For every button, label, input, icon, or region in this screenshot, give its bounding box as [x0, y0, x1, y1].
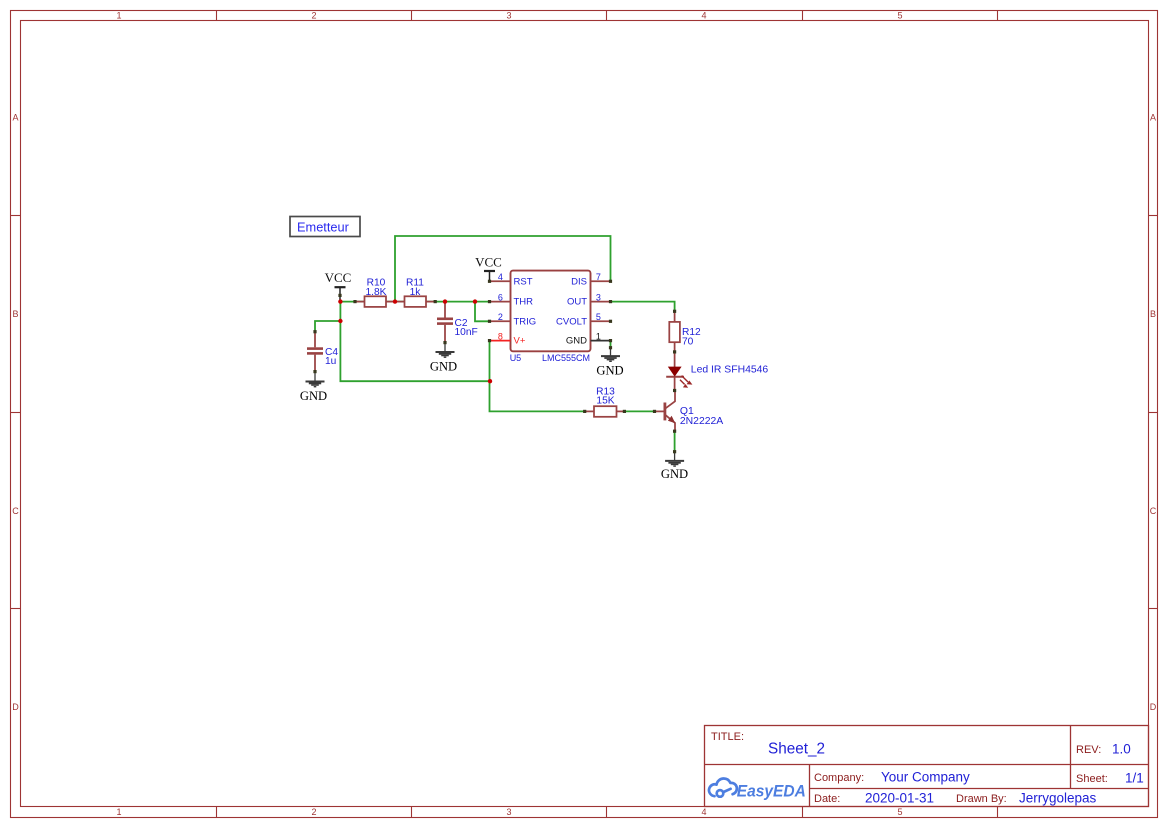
svg-text:THR: THR — [514, 297, 534, 308]
svg-text:B: B — [12, 309, 18, 319]
svg-text:D: D — [1150, 702, 1157, 712]
svg-text:TITLE:: TITLE: — [711, 731, 744, 743]
svg-text:VCC: VCC — [475, 255, 502, 270]
svg-text:Your Company: Your Company — [881, 770, 970, 785]
svg-text:GND: GND — [566, 336, 587, 347]
svg-text:2: 2 — [311, 11, 316, 21]
svg-text:10nF: 10nF — [455, 327, 478, 338]
svg-text:5: 5 — [897, 807, 902, 817]
svg-text:7: 7 — [596, 272, 601, 282]
svg-text:1: 1 — [116, 807, 121, 817]
svg-text:2: 2 — [311, 807, 316, 817]
svg-text:LMC555CM: LMC555CM — [542, 353, 590, 363]
svg-text:Emetteur: Emetteur — [297, 220, 350, 235]
svg-text:1.8K: 1.8K — [366, 287, 387, 298]
svg-text:4: 4 — [498, 272, 503, 282]
svg-text:Jerrygolepas: Jerrygolepas — [1019, 791, 1097, 806]
svg-text:C: C — [1150, 506, 1157, 516]
svg-text:Company:: Company: — [814, 772, 864, 784]
svg-text:Sheet_2: Sheet_2 — [768, 741, 825, 758]
svg-text:CVOLT: CVOLT — [556, 316, 587, 327]
svg-text:OUT: OUT — [567, 297, 587, 308]
svg-text:5: 5 — [897, 11, 902, 21]
svg-text:GND: GND — [430, 359, 457, 373]
svg-text:U5: U5 — [510, 353, 522, 363]
svg-text:D: D — [12, 702, 19, 712]
svg-text:REV:: REV: — [1076, 744, 1101, 756]
svg-text:1.0: 1.0 — [1112, 742, 1131, 757]
svg-text:15K: 15K — [596, 396, 614, 407]
svg-text:Date:: Date: — [814, 793, 840, 805]
svg-text:3: 3 — [506, 11, 511, 21]
svg-text:3: 3 — [596, 292, 601, 302]
svg-text:2020-01-31: 2020-01-31 — [865, 791, 934, 806]
svg-text:C: C — [12, 506, 19, 516]
svg-text:5: 5 — [596, 312, 601, 322]
svg-text:V+: V+ — [514, 336, 526, 347]
svg-text:DIS: DIS — [571, 276, 587, 287]
svg-text:A: A — [12, 113, 18, 123]
svg-text:1k: 1k — [410, 287, 422, 298]
svg-text:70: 70 — [682, 336, 694, 347]
svg-text:Sheet:: Sheet: — [1076, 773, 1108, 785]
svg-text:4: 4 — [701, 807, 706, 817]
svg-text:Drawn By:: Drawn By: — [956, 793, 1007, 805]
svg-text:EasyEDA: EasyEDA — [737, 782, 806, 801]
svg-text:1u: 1u — [325, 356, 336, 367]
svg-text:Led IR SFH4546: Led IR SFH4546 — [691, 365, 769, 376]
svg-text:2: 2 — [498, 312, 503, 322]
svg-text:VCC: VCC — [325, 270, 352, 285]
svg-text:RST: RST — [514, 276, 533, 287]
svg-text:B: B — [1150, 309, 1156, 319]
svg-text:GND: GND — [596, 363, 623, 377]
svg-text:A: A — [1150, 113, 1156, 123]
svg-text:1: 1 — [596, 331, 601, 341]
svg-text:GND: GND — [300, 389, 327, 403]
svg-text:1: 1 — [116, 11, 121, 21]
svg-text:1/1: 1/1 — [1125, 771, 1144, 786]
svg-text:GND: GND — [661, 467, 688, 481]
svg-text:8: 8 — [498, 331, 503, 341]
svg-text:4: 4 — [701, 11, 706, 21]
svg-text:2N2222A: 2N2222A — [680, 416, 723, 427]
svg-text:6: 6 — [498, 292, 503, 302]
svg-text:TRIG: TRIG — [514, 316, 537, 327]
svg-text:3: 3 — [506, 807, 511, 817]
